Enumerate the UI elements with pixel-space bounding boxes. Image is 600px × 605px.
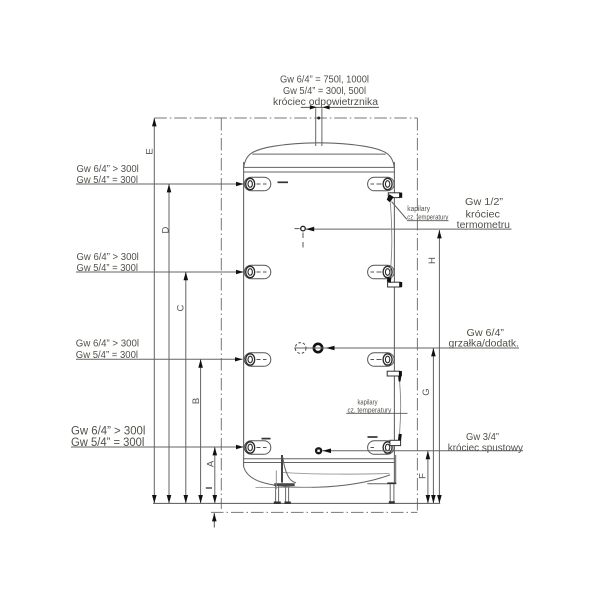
top label underline <box>301 106 379 108</box>
heater leader with arrow <box>294 347 519 349</box>
top arrows at vent pipe <box>310 105 317 109</box>
right label thermometer <box>457 197 510 231</box>
lower seam line 1 <box>244 458 395 460</box>
capillary tube 1-2 <box>390 203 392 279</box>
svg-text:H: H <box>427 257 438 264</box>
dimension E <box>145 118 157 503</box>
kapilary text 2 <box>348 400 392 415</box>
left port row 4 <box>244 441 270 455</box>
capillary tube 3-4 <box>399 382 402 434</box>
drain port <box>315 447 322 454</box>
svg-text:kapilary: kapilary <box>358 400 378 407</box>
right label heater <box>449 328 520 350</box>
label I (rotated) <box>206 487 212 489</box>
svg-text:E: E <box>145 148 156 154</box>
left label row 1 <box>77 164 139 186</box>
right label drain <box>448 432 523 454</box>
dome seam line <box>252 153 385 155</box>
dished bottom curve <box>244 466 390 487</box>
left label row 2 <box>77 252 139 274</box>
right port row 2 <box>368 265 395 279</box>
svg-text:kapilary: kapilary <box>407 206 430 213</box>
svg-text:Gw 6/4”: Gw 6/4” <box>467 328 505 339</box>
capillary fitting 3 <box>387 371 402 382</box>
upper seam line 1 <box>244 166 395 168</box>
svg-text:Gw 6/4” = 750l, 1000l: Gw 6/4” = 750l, 1000l <box>280 75 369 86</box>
legs: left front leg plate <box>274 483 294 504</box>
left port row 3 <box>244 353 270 367</box>
baseline stub arrow <box>212 513 217 528</box>
svg-text:Gw 5/4” = 300l, 500l: Gw 5/4” = 300l, 500l <box>283 86 366 97</box>
upper seam line 2 <box>244 171 395 173</box>
left port row 2 <box>244 265 270 279</box>
svg-text:C: C <box>176 304 187 311</box>
reference frame: right dash-dot vertical <box>416 118 418 512</box>
dimension D <box>161 184 172 503</box>
right gusset bottom line <box>367 483 388 485</box>
ground line <box>153 502 440 504</box>
svg-text:G: G <box>421 388 432 395</box>
capillary fitting 4 <box>390 433 402 445</box>
top label text <box>273 75 378 108</box>
leader row 1 <box>76 183 244 185</box>
svg-text:Gw 3/4”: Gw 3/4” <box>466 432 499 443</box>
svg-text:Gw 6/4” > 300l: Gw 6/4” > 300l <box>77 164 139 175</box>
bottom hidden line <box>256 486 313 488</box>
tank right wall <box>393 162 395 482</box>
legs: left rear leg <box>274 486 281 504</box>
svg-text:króciec spustowy: króciec spustowy <box>448 443 523 454</box>
svg-text:A: A <box>206 460 217 467</box>
drain leader with arrow <box>323 450 524 452</box>
lower seam line 2 <box>244 462 395 464</box>
leader row 3 <box>76 358 243 360</box>
reference frame: left dash-dot vertical <box>220 118 222 509</box>
thermometer leader with arrow <box>306 228 512 230</box>
tank dome <box>244 143 395 168</box>
leader row 2 <box>76 271 244 273</box>
dimension G <box>421 348 436 503</box>
vent pipe <box>315 108 317 146</box>
right port row 1 <box>368 177 395 191</box>
right port row 4 <box>368 441 395 455</box>
svg-text:D: D <box>161 226 172 233</box>
left port row 1 <box>244 177 270 191</box>
tick above left port 4 <box>262 438 271 440</box>
dimension A <box>206 447 218 503</box>
left label row 3 <box>76 339 139 361</box>
svg-text:króciec: króciec <box>466 210 501 221</box>
kapilary leader 1 <box>392 202 408 220</box>
heater dashed circle <box>295 343 306 354</box>
heater boss ring <box>314 344 322 352</box>
svg-text:termometru: termometru <box>457 220 510 231</box>
kapilary text 1 <box>407 206 448 221</box>
svg-text:F: F <box>418 473 429 479</box>
left label row 4 <box>71 425 145 449</box>
svg-text:Gw 6/4” > 300l: Gw 6/4” > 300l <box>71 425 145 437</box>
dimension F <box>418 451 431 504</box>
leader row 4 <box>71 446 244 448</box>
svg-text:Gw 6/4” > 300l: Gw 6/4” > 300l <box>77 252 139 263</box>
inner dish line <box>283 472 390 474</box>
svg-text:grzałka/dodatk.: grzałka/dodatk. <box>449 339 520 350</box>
dimension H <box>427 230 442 503</box>
reference frame: bottom dash-dot baseline <box>211 511 417 513</box>
capillary fitting 1 <box>387 193 403 203</box>
svg-text:Gw 1/2”: Gw 1/2” <box>465 197 503 208</box>
reference frame: top dash-dot line <box>154 117 417 119</box>
dimension B <box>191 359 203 503</box>
tick above right port 4 <box>368 436 378 438</box>
thermometer mini port <box>295 226 306 247</box>
dimension C <box>176 272 189 504</box>
right leg <box>387 455 396 504</box>
svg-text:B: B <box>191 398 202 404</box>
svg-text:Gw 6/4” > 300l: Gw 6/4” > 300l <box>76 339 139 350</box>
tank left wall <box>243 162 245 467</box>
tick near left port 1 <box>278 181 289 183</box>
svg-text:króciec odpowietrznika: króciec odpowietrznika <box>273 97 378 108</box>
leg gusset fin <box>276 455 296 489</box>
capillary fitting 2 <box>387 277 402 287</box>
right port row 3 <box>368 353 395 367</box>
